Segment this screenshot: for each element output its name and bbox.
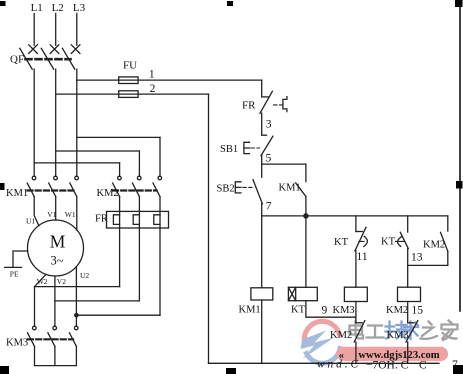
thermal contact FR (control) [242, 91, 287, 113]
thermal relay FR element 3 [154, 211, 160, 228]
wire 2 [56, 83, 209, 363]
wire SB1 to SB2 [261, 156, 263, 165]
wire FR to SB1 [261, 113, 263, 135]
wire 1 [77, 69, 262, 97]
svg-text:U2: U2 [80, 271, 89, 280]
svg-text:FR: FR [95, 214, 108, 225]
thermal relay FR element 2 [133, 211, 139, 228]
watermark banner www.dgjs123.com [337, 347, 449, 361]
contactor KM2 pole 1 [113, 176, 122, 196]
coil KT [288, 287, 317, 315]
wire FR2 to V2 [55, 300, 139, 302]
stop button SB1 [220, 135, 273, 155]
watermark text dianggong jishu zhijia [350, 322, 384, 339]
svg-text:KM2: KM2 [330, 330, 352, 341]
svg-text:−7OH. C: −7OH. C [366, 360, 409, 372]
image border right edge [459, 5, 461, 312]
svg-text:13: 13 [411, 252, 423, 264]
watermark faint formula text [317, 359, 458, 372]
svg-text:1: 1 [149, 69, 155, 81]
svg-text:L3: L3 [73, 2, 86, 14]
svg-text:KT: KT [334, 237, 349, 248]
wire branch to KM1 aux [262, 163, 306, 165]
wire KM1 aux to KT coil [305, 216, 307, 287]
wire KM3 coil to interlock [355, 302, 357, 323]
svg-text:KM1: KM1 [239, 305, 261, 316]
svg-text:SB1: SB1 [220, 144, 238, 155]
breaker QF linkage and label [10, 53, 71, 65]
svg-text:U1: U1 [26, 217, 35, 226]
start button SB2 [217, 164, 263, 216]
wire FR3 to U2 [76, 314, 160, 316]
wire KM2 coil to interlock [407, 302, 409, 323]
fuse FU2 [119, 91, 138, 98]
timed contact KT NO branch [381, 216, 408, 249]
wire FR1 to W2 [35, 286, 120, 288]
wire KM2 pole 3 to FR [159, 197, 161, 212]
contactor KM2 pole 3 [153, 176, 162, 196]
wire KT coil bottom link [306, 301, 356, 318]
ground PE [5, 251, 28, 279]
coil KM3 [333, 287, 368, 316]
contactor KM3 linkage and label [6, 338, 73, 349]
svg-text:w n d . C: w n d . C [317, 359, 359, 371]
svg-text:KT: KT [381, 237, 396, 248]
wire FR2 down [138, 228, 140, 301]
wire KM1 pole 1 to motor U1 [34, 197, 39, 226]
interlock contact KM2 NC [330, 321, 365, 364]
wire KM2 pole 2 to FR [138, 197, 140, 212]
svg-text:L2: L2 [52, 2, 64, 14]
wire node 7 bus [262, 215, 448, 217]
wire motor W2 down [35, 274, 47, 326]
wire KM1 pole 3 to motor W1 [76, 197, 78, 231]
svg-text:C: C [419, 360, 427, 372]
svg-text:QF: QF [10, 53, 24, 65]
wire motor V2 down [54, 276, 56, 326]
svg-text:KT: KT [291, 305, 306, 316]
motor M 3~ [28, 220, 84, 276]
contactor KM3 pole 1 [28, 326, 37, 346]
wire L1 to KM2 pole 1 [34, 163, 119, 176]
svg-text:KM2: KM2 [97, 188, 119, 199]
thermal relay FR element 1 [113, 211, 119, 228]
svg-text:9: 9 [322, 305, 328, 317]
wire phase L3 to KM1 [76, 69, 78, 176]
svg-text:V2: V2 [57, 277, 66, 286]
wire KM3 star bridge [35, 346, 77, 365]
svg-text:5: 5 [266, 153, 272, 165]
svg-text:KM3: KM3 [333, 305, 355, 316]
aux contact KM2 [408, 216, 448, 266]
wire motor U2 down [75, 267, 77, 327]
junction U2-FR3 [75, 314, 78, 317]
svg-text:2: 2 [150, 83, 156, 95]
interlock contact KM3 NC [387, 321, 418, 364]
wire KT NC to KM3 coil [355, 251, 357, 287]
wire L2 drop [55, 14, 57, 46]
wire L3 to KM2 pole 3 [77, 137, 160, 176]
wire FR1 down [119, 228, 121, 287]
breaker QF pole 2 [41, 45, 59, 69]
wire KM2 pole 1 to FR [119, 197, 121, 212]
svg-text:KM2: KM2 [423, 240, 445, 251]
svg-text:KM2: KM2 [386, 305, 408, 316]
wire KM1 pole 2 to motor V1 [55, 197, 57, 221]
svg-text:KM1: KM1 [6, 188, 28, 199]
aux contact KM1 [279, 164, 306, 216]
wire L1 drop [33, 14, 35, 46]
wire bottom bus [209, 362, 439, 364]
svg-text:FR: FR [242, 100, 256, 112]
svg-text:KM3: KM3 [6, 338, 28, 349]
breaker QF pole 1 [20, 45, 38, 69]
wire phase L1 to KM1 [33, 69, 35, 176]
junction node 7 [304, 214, 308, 218]
svg-text:15: 15 [412, 305, 424, 317]
svg-text:W1: W1 [65, 210, 76, 219]
contactor KM1 pole 2 [49, 176, 58, 196]
coil KM1 [239, 288, 273, 316]
svg-text:11: 11 [357, 251, 368, 263]
svg-text:3~: 3~ [50, 254, 63, 268]
watermark logo circle [301, 321, 341, 363]
wire KM1 coil to bottom bus [261, 300, 263, 363]
svg-text:3: 3 [266, 119, 272, 131]
svg-text:FU: FU [123, 60, 137, 72]
svg-text:SB2: SB2 [217, 183, 235, 194]
coil KM2 [386, 287, 421, 316]
svg-text:M: M [50, 232, 66, 252]
wire L2 to KM2 pole 2 [56, 151, 140, 176]
contactor KM2 pole 2 [132, 176, 141, 196]
timed contact KT NC branch [334, 216, 367, 251]
wire L3 drop [76, 14, 78, 46]
wire phase L2 to KM1 [55, 69, 57, 176]
wire FR3 down [159, 228, 161, 315]
contactor KM2 linkage and label [97, 188, 157, 199]
svg-text:KM1: KM1 [279, 182, 301, 193]
contactor KM3 pole 3 [69, 326, 78, 346]
contactor KM1 pole 3 [70, 176, 79, 196]
svg-text:V1: V1 [47, 210, 56, 219]
thermal relay FR heater box [107, 211, 169, 228]
svg-text:PE: PE [10, 270, 19, 279]
breaker QF pole 3 [62, 45, 80, 69]
svg-text:7: 7 [266, 201, 272, 213]
svg-text:KM3: KM3 [387, 330, 409, 341]
wire KT NO to KM2 coil [407, 249, 409, 288]
contactor KM3 pole 2 [48, 326, 57, 346]
contactor KM1 pole 1 [27, 176, 36, 196]
svg-text:L1: L1 [31, 2, 43, 14]
contactor KM1 linkage and label [6, 188, 74, 199]
wire rail to KM1 coil [261, 216, 263, 288]
fuse FU1 [119, 77, 138, 84]
